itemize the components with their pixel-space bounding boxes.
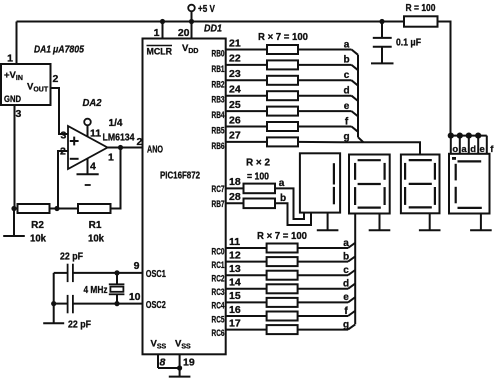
wire pin 24 [226, 95, 267, 97]
svg-text:DD1: DD1 [204, 23, 222, 35]
node anode dot 1 [448, 133, 454, 139]
wire VOUT to op-amp +input [51, 88, 69, 134]
bus foot diagonal upper [358, 137, 364, 142]
wire resistor c to bus lower [298, 274, 348, 276]
svg-text:a: a [279, 178, 285, 189]
wire OSC1 pin 9 [73, 272, 143, 274]
wire pin 17 [226, 329, 267, 331]
svg-text:RC2: RC2 [212, 274, 225, 285]
svg-text:PIC16F872: PIC16F872 [160, 171, 200, 182]
resistor network R segment a lower [267, 244, 298, 253]
node R2 left junction [11, 206, 16, 211]
wire feedback [111, 148, 121, 209]
node junction R/C top-right [379, 19, 384, 24]
node anode dot 2 [457, 133, 463, 139]
wire R100 to displays [438, 22, 451, 136]
pin 25 number [229, 99, 241, 111]
+5V supply symbol [188, 4, 215, 22]
wire pin 21 [226, 49, 267, 51]
wire pin 28 [226, 202, 244, 204]
segment label d lower [343, 279, 349, 290]
segment label b lower [343, 251, 349, 262]
display HG2 segment g [358, 183, 381, 185]
svg-text:27: 27 [229, 130, 241, 142]
segment label f upper [345, 116, 349, 127]
capacitor C 22pF top [68, 264, 73, 282]
resistor network R segment b upper [267, 60, 298, 69]
bus diagonal f lower [348, 311, 355, 316]
VDD text [182, 43, 198, 55]
label R x 2 [246, 158, 270, 169]
ground op-amp bar [77, 174, 99, 185]
svg-text:0.1 μF: 0.1 μF [396, 38, 421, 49]
display HG3 segment f [404, 163, 406, 180]
wire Rx2 a to display 1 [275, 188, 304, 219]
pin 1 number [154, 27, 160, 39]
wire resistor f to bus lower [298, 315, 348, 317]
node oscillator ground junction [51, 301, 56, 306]
ground VSS [169, 368, 191, 377]
wire cap bottom to left rail [54, 303, 68, 305]
svg-text:1/4: 1/4 [109, 117, 123, 129]
wire R2-R1 [50, 208, 79, 210]
wire pin 22 [226, 64, 267, 66]
pin label o [452, 144, 458, 155]
bus diagonal d lower [348, 284, 355, 289]
svg-text:24: 24 [229, 84, 241, 96]
pin 26 number [229, 114, 241, 126]
bus diagonal c lower [348, 270, 355, 275]
svg-text:= 100: = 100 [247, 172, 269, 183]
svg-text:RC0: RC0 [212, 246, 225, 257]
svg-text:1: 1 [7, 53, 13, 65]
pin 22 number [229, 53, 241, 65]
label 22 pF top [60, 252, 83, 263]
wire anode stem a [459, 136, 461, 154]
pin 1 label regulator [7, 53, 13, 65]
svg-text:13: 13 [229, 263, 241, 275]
RC5 label [212, 314, 225, 325]
svg-text:2: 2 [60, 146, 66, 158]
VSS text 1 [151, 339, 167, 351]
wire resistor f to bus upper [298, 126, 352, 128]
svg-text:OSC1: OSC1 [146, 268, 166, 280]
display HG3 segment c [434, 187, 436, 205]
RC7 label [212, 184, 225, 195]
bus diagonal d upper [352, 96, 359, 101]
display HG3 segment e [404, 187, 406, 205]
svg-text:DA1: DA1 [34, 45, 51, 56]
ANO text [147, 145, 163, 156]
svg-text:GND: GND [4, 94, 21, 105]
pin 17 number [229, 317, 241, 329]
wire pin 25 [226, 110, 267, 112]
svg-text:R = 100: R = 100 [406, 3, 436, 14]
bus diagonal b lower [348, 256, 355, 261]
svg-text:4 MHz: 4 MHz [84, 285, 108, 296]
op-amp plus sign [70, 137, 79, 146]
pin 2 label ANO [137, 136, 143, 148]
pin 2 label op-amp [60, 146, 66, 158]
segment label b upper [343, 55, 349, 66]
label DD1 [204, 23, 222, 35]
pin 3 label regulator [16, 108, 22, 120]
svg-text:RC3: RC3 [212, 287, 225, 298]
wire left drop to regulator [16, 22, 18, 65]
wire resistor a to bus upper [298, 49, 352, 51]
bus vertical upper [357, 55, 359, 137]
pin 15 number [229, 290, 241, 302]
wire resistor a to bus lower [298, 247, 348, 249]
wire pin 15 [226, 301, 267, 303]
svg-text:ANO: ANO [147, 145, 163, 156]
resistor network R segment f upper [267, 122, 298, 131]
pin 3 label op-amp [61, 130, 67, 142]
label = 100 [247, 172, 269, 183]
bus diagonal f upper [352, 127, 359, 132]
wire pin 14 [226, 288, 267, 290]
bus vertical lower to display 2 [354, 214, 356, 325]
wire resistor b to bus upper [298, 64, 352, 66]
wire pin 27 [226, 141, 267, 143]
display HG4 segment f [455, 164, 457, 181]
RB6 label [212, 141, 225, 152]
svg-text:RB5: RB5 [212, 126, 225, 137]
resistor network R segment c upper [267, 76, 298, 85]
bus diagonal c upper [352, 80, 359, 85]
bus diagonal b upper [352, 65, 359, 70]
pin 11 number [229, 236, 240, 248]
svg-text:b: b [343, 251, 349, 262]
svg-text:22 pF: 22 pF [68, 320, 91, 331]
pin 18 number [229, 176, 241, 188]
svg-text:DA2: DA2 [83, 97, 102, 109]
VSS text 2 [175, 339, 191, 351]
svg-text:RC1: RC1 [212, 260, 225, 271]
wire resistor b to bus lower [298, 261, 348, 263]
svg-text:LM6134: LM6134 [103, 132, 135, 144]
resistor network R segment d lower [267, 284, 298, 293]
display HG2 segment e [354, 187, 356, 205]
label 4 MHz [84, 285, 108, 296]
pin 28 number [229, 191, 241, 203]
display HG2 segment b [384, 163, 386, 180]
wire pin 26 [226, 126, 267, 128]
svg-text:11: 11 [229, 236, 240, 248]
wire resistor d to bus lower [298, 288, 348, 290]
pin 2 label regulator [53, 73, 59, 85]
wire +5V rail [17, 21, 405, 23]
wire anode stem o [450, 136, 452, 154]
segment label g lower [343, 319, 349, 330]
svg-text:RC5: RC5 [212, 314, 225, 325]
resistor R2 [18, 204, 50, 213]
svg-text:RB6: RB6 [212, 141, 225, 152]
svg-text:R × 7 = 100: R × 7 = 100 [257, 231, 307, 242]
svg-text:23: 23 [229, 68, 241, 80]
wire pin 11 [226, 247, 267, 249]
pin label a [461, 144, 467, 155]
OSC1 text [146, 268, 166, 280]
wire segment bus to display 3 [298, 142, 420, 155]
pin 13 number [229, 263, 241, 275]
wire cap top to left rail [54, 272, 68, 274]
label R1 value 10k [88, 234, 104, 245]
svg-text:e: e [344, 101, 350, 112]
svg-text:μA7805: μA7805 [52, 45, 84, 56]
wire resistor e to bus upper [298, 110, 352, 112]
RC6 label [212, 328, 225, 339]
pin label e [480, 144, 485, 155]
PIC16F872 text [160, 171, 200, 182]
display HG3 segment b [434, 163, 436, 180]
display HG2 segment c [384, 187, 386, 205]
regulator VOUT text [27, 82, 49, 94]
svg-text:b: b [343, 55, 349, 66]
wire anode stem d [468, 136, 470, 154]
ground display HG2 [369, 214, 391, 231]
svg-text:+5 V: +5 V [198, 4, 215, 15]
svg-text:26: 26 [229, 114, 241, 126]
wire pin 18 [226, 187, 244, 189]
display HG2 segment d [358, 207, 381, 209]
resistor R1 [78, 204, 111, 213]
node OSC1 junction [114, 270, 119, 275]
segment label e upper [344, 101, 350, 112]
node OSC2 junction [114, 301, 119, 306]
ground 0.1uF [371, 62, 394, 64]
wire resistor g to bus lower [298, 329, 348, 331]
RB5 label [212, 126, 225, 137]
svg-text:f: f [490, 144, 494, 155]
capacitor C 22pF bottom [68, 295, 73, 313]
pin 24 number [229, 84, 241, 96]
wire pin 12 [226, 261, 267, 263]
RB7 label [212, 199, 225, 210]
resistor network R segment c lower [267, 271, 298, 280]
svg-text:RC6: RC6 [212, 328, 225, 339]
pin 27 number [229, 130, 241, 142]
resistor network R segment e upper [267, 107, 298, 116]
svg-text:g: g [343, 132, 349, 143]
svg-text:15: 15 [229, 290, 241, 302]
svg-text:R × 2: R × 2 [246, 158, 270, 169]
resistor network R segment g upper [267, 137, 298, 146]
pin 8 stem VSS [157, 354, 159, 368]
wire anode stem f [486, 136, 488, 154]
wire resistor e to bus lower [298, 301, 348, 303]
RC4 label [212, 301, 225, 312]
svg-text:22: 22 [229, 53, 241, 65]
svg-text:12: 12 [229, 249, 241, 261]
svg-text:14: 14 [229, 277, 241, 289]
pin 23 number [229, 68, 241, 80]
svg-text:22 pF: 22 pF [60, 252, 83, 263]
segment label g upper [343, 132, 349, 143]
svg-text:3: 3 [16, 108, 22, 120]
resistor network R segment f lower [267, 312, 298, 321]
display HG1 segment b [333, 163, 335, 184]
pin label d [470, 144, 476, 155]
svg-text:4: 4 [90, 161, 96, 173]
segment label e lower [343, 292, 349, 303]
RC1 label [212, 260, 225, 271]
op-amp U DA2 triangle [68, 126, 108, 169]
RC3 label [212, 287, 225, 298]
svg-text:17: 17 [229, 317, 241, 329]
svg-text:20: 20 [178, 27, 190, 39]
svg-text:e: e [343, 292, 349, 303]
svg-text:10k: 10k [88, 234, 104, 245]
OSC2 text [146, 299, 166, 311]
svg-text:18: 18 [229, 176, 241, 188]
IC DD1 PIC16F872 box [143, 39, 226, 355]
svg-text:OSC2: OSC2 [146, 299, 166, 311]
node junction pin1 [160, 19, 165, 24]
svg-text:2: 2 [53, 73, 59, 85]
svg-text:21: 21 [229, 37, 241, 49]
svg-text:RB3: RB3 [212, 95, 225, 106]
svg-text:19: 19 [183, 357, 195, 369]
svg-text:10k: 10k [30, 234, 46, 245]
label 0.1 uF [396, 38, 421, 49]
svg-text:10: 10 [129, 291, 141, 303]
display HG2 box [349, 155, 390, 214]
pin 8 number [160, 357, 166, 369]
ground oscillator [43, 322, 64, 324]
label R2 value 10k [30, 234, 46, 245]
svg-text:MCLR: MCLR [147, 47, 173, 58]
display HG2 segment f [354, 163, 356, 180]
node inverting junction [54, 206, 59, 211]
display HG4 box [449, 154, 490, 214]
segment label f lower [344, 306, 348, 317]
svg-text:c: c [344, 70, 350, 81]
ground display HG1 [317, 213, 339, 231]
pin 16 number [229, 304, 241, 316]
segment label a lower [343, 238, 349, 249]
resistor network R segment d upper [267, 91, 298, 100]
svg-text:a: a [343, 238, 349, 249]
op-amp power pin 11 terminal [84, 119, 91, 137]
MCLR text with overline [147, 46, 173, 58]
pin 12 number [229, 249, 241, 261]
segment label b R x 2 [280, 193, 286, 204]
display HG3 segment g [409, 183, 432, 185]
svg-text:11: 11 [90, 128, 101, 140]
wire display4 anode rail [451, 135, 487, 137]
RB2 label [212, 79, 225, 90]
wire resistor d to bus upper [298, 95, 352, 97]
resistor R x 2 segment b [244, 199, 276, 209]
RB3 label [212, 95, 225, 106]
bus diagonal g lower [348, 324, 355, 329]
pin 14 number [229, 277, 241, 289]
svg-text:RB4: RB4 [212, 110, 225, 121]
RB0 label [212, 49, 225, 60]
pin 4 label [90, 161, 96, 173]
node output junction [118, 145, 123, 150]
RB1 label [212, 64, 225, 75]
svg-text:1: 1 [108, 152, 114, 164]
bus diagonal a upper [352, 50, 359, 55]
display HG3 box [401, 155, 440, 214]
resistor network R segment g lower [267, 325, 298, 334]
display HG4 segment d [458, 207, 482, 209]
label R2 [31, 220, 44, 231]
ground display HG4 [470, 214, 492, 231]
RB4 label [212, 110, 225, 121]
segment label a upper [344, 39, 350, 50]
wire pin 13 [226, 274, 267, 276]
pin 19 stem VSS [179, 354, 181, 368]
pin 9 number [134, 260, 140, 272]
ground under regulator [3, 209, 25, 237]
display HG3 segment a [409, 159, 432, 161]
pin 20 number [178, 27, 190, 39]
label DA2 [83, 97, 102, 109]
crystal ZQ 4MHz [109, 273, 125, 304]
segment label a R x 2 [279, 178, 285, 189]
svg-text:a: a [344, 39, 350, 50]
resistor R 100 [404, 16, 438, 26]
pin 19 number [183, 357, 195, 369]
wire oscillator left rail [53, 273, 55, 323]
svg-text:8: 8 [160, 357, 166, 369]
label R = 100 [406, 3, 436, 14]
op-amp minus sign [70, 158, 79, 160]
wire Rx2 b to display 1 [275, 203, 311, 225]
segment label d upper [343, 86, 349, 97]
display HG1 box [300, 153, 340, 212]
wire op-amp output to ANO [108, 147, 143, 149]
svg-text:25: 25 [229, 99, 241, 111]
op-amp pin 4 ground stem [87, 158, 89, 174]
RC0 label [212, 246, 225, 257]
svg-text:R × 7 = 100: R × 7 = 100 [258, 32, 308, 43]
label DA1 uA7805 [34, 45, 84, 56]
svg-text:R2: R2 [31, 220, 44, 231]
segment label c upper [344, 70, 350, 81]
pin 10 number [129, 291, 141, 303]
svg-text:RB1: RB1 [212, 64, 225, 75]
pin 1 stem MCLR [162, 22, 164, 39]
resistor network R segment a upper [267, 45, 298, 54]
regulator GND text [4, 94, 21, 105]
node VSS junction [177, 365, 182, 370]
pin 21 number [229, 37, 241, 49]
wire pin 16 [226, 315, 267, 317]
label 22 pF bottom [68, 320, 91, 331]
resistor network R segment e lower [267, 298, 298, 307]
bus diagonal e upper [352, 111, 359, 116]
svg-text:RC7: RC7 [212, 184, 225, 195]
svg-text:R1: R1 [89, 220, 102, 231]
regulator +VIN text [4, 70, 23, 82]
svg-text:RB2: RB2 [212, 79, 225, 90]
svg-text:RB7: RB7 [212, 199, 225, 210]
svg-text:3: 3 [61, 130, 67, 142]
bus diagonal a lower [348, 243, 355, 248]
display HG4 segment a [458, 160, 482, 162]
svg-text:RC4: RC4 [212, 301, 225, 312]
display HG3 segment d [409, 206, 432, 208]
svg-text:1: 1 [154, 27, 160, 39]
bus diagonal e lower [348, 297, 355, 302]
ground display HG3 [419, 213, 441, 230]
wire anode stem e [477, 136, 479, 154]
svg-text:28: 28 [229, 191, 241, 203]
